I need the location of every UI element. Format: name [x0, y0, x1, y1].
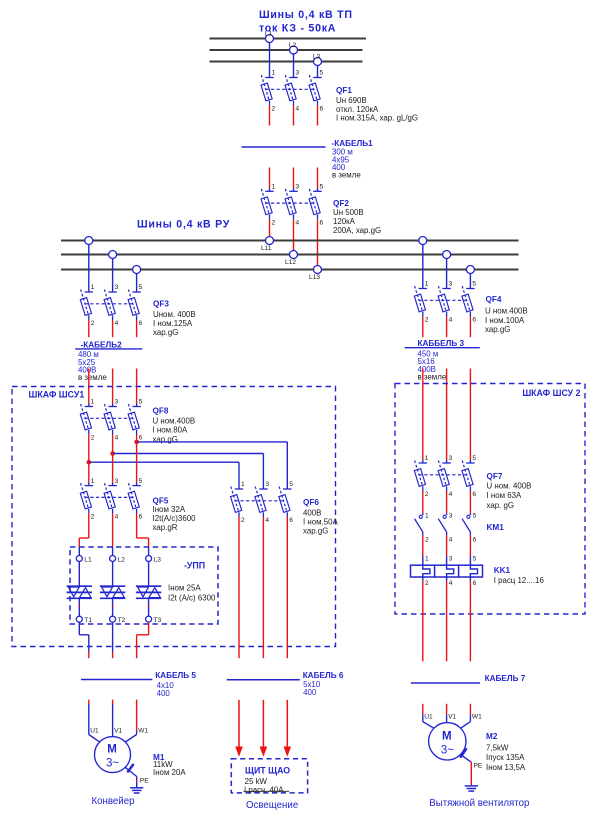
busbar TP 0,4kV (3 lines) — [210, 39, 367, 62]
svg-text:L13: L13 — [309, 274, 320, 281]
svg-text:4: 4 — [296, 106, 300, 113]
QF4 value labels — [485, 295, 528, 334]
contactor KM1 pole 2 (pins 3,4) — [438, 512, 452, 543]
wire QF6 pin2 down to КАБЕЛЬ6 — [238, 517, 240, 658]
wire КАББЕЛЬ3 to QF7 pin3 — [446, 369, 448, 464]
svg-text:V1: V1 — [448, 714, 456, 721]
cabinet box ШКАФ ШСУ1 — [12, 387, 336, 647]
svg-text:4: 4 — [265, 517, 269, 524]
svg-text:T2: T2 — [118, 617, 126, 624]
svg-text:6: 6 — [289, 517, 293, 524]
wire junction C to QF5 pin5 — [136, 442, 138, 486]
svg-text:1: 1 — [425, 281, 429, 288]
QF1 value labels — [336, 86, 418, 122]
QF2 value labels — [333, 199, 381, 235]
busbar title "Шины 0,4 кВ ТП" — [259, 9, 353, 21]
breaker QF7 (switch-fuse, 3 poles, pins 1-6) — [414, 455, 476, 498]
wire bus to QF4 pin3 — [446, 259, 448, 289]
svg-text:400: 400 — [303, 688, 317, 697]
breaker QF3 (switch-fuse, 3 poles, pins 1-6) — [80, 284, 142, 327]
svg-text:ШКАФ ШСУ 2: ШКАФ ШСУ 2 — [522, 388, 580, 398]
cabinet label ШКАФ ШСУ1 — [29, 389, 85, 399]
caption Конвейер — [92, 796, 135, 807]
wire QF2 pin2 to node L11 — [269, 219, 271, 236]
УПП terminal T2 — [110, 616, 126, 624]
svg-text:U ном.400В: U ном.400В — [485, 307, 528, 316]
wire junction B to QF5 pin3 — [112, 454, 114, 486]
svg-text:I ном.100А: I ном.100А — [485, 316, 525, 325]
svg-text:3~: 3~ — [106, 758, 119, 770]
cabinet box ШКАФ ШСУ 2 — [395, 384, 585, 615]
wire L1 to QF1 pin1 — [269, 43, 271, 78]
svg-text:хар.gG: хар.gG — [153, 328, 178, 337]
svg-text:3: 3 — [115, 478, 119, 485]
svg-text:QF7: QF7 — [487, 472, 503, 481]
svg-text:L2: L2 — [118, 556, 126, 563]
svg-text:Iном 20А: Iном 20А — [153, 768, 186, 777]
svg-text:хар. gG: хар. gG — [487, 501, 515, 510]
svg-text:5: 5 — [139, 478, 143, 485]
svg-text:2: 2 — [425, 536, 429, 543]
panel label ЩИТ ЩАО — [245, 766, 290, 776]
svg-text:L12: L12 — [285, 259, 296, 266]
wire QF6 pin4 down to КАБЕЛЬ6 — [262, 517, 264, 658]
wire KM1 pin4 to KK1 pin3 — [447, 535, 453, 562]
node QF4 phase C on bus — [466, 266, 474, 274]
svg-text:120кА: 120кА — [333, 217, 356, 226]
wire КАББЕЛЬ3 to QF7 pin1 — [422, 369, 424, 464]
svg-text:6: 6 — [472, 491, 476, 498]
svg-text:L1: L1 — [265, 30, 273, 37]
svg-text:6: 6 — [473, 536, 477, 543]
svg-text:1: 1 — [91, 284, 95, 291]
M1 PE lead with blade — [125, 764, 149, 787]
svg-text:5: 5 — [473, 556, 477, 563]
svg-text:5: 5 — [320, 184, 324, 191]
node QF4 phase B on bus — [443, 251, 451, 259]
svg-text:Uн 500В: Uн 500В — [333, 208, 364, 217]
wire T2 to КАБЕЛЬ5 — [112, 622, 114, 658]
svg-text:хар.gG: хар.gG — [303, 527, 328, 536]
svg-text:1: 1 — [425, 512, 429, 519]
motor M1 (М 3~) — [95, 737, 131, 773]
wire QF7 pin6 to KM1 pin5 — [469, 491, 471, 515]
busbar title "Шины 0,4 кВ РУ" — [137, 218, 230, 230]
M2 value labels — [486, 732, 526, 772]
svg-text:в земле: в земле — [418, 373, 447, 382]
KK1 heater element phase 2 (pins 3,4) — [447, 556, 454, 587]
breaker QF1 (switch-fuse, 3 poles, pins 1-6) — [261, 70, 323, 113]
motor M2 (М 3~) — [429, 723, 466, 760]
wire КАББЕЛЬ3 to QF7 pin5 — [469, 369, 471, 464]
svg-text:2: 2 — [272, 219, 276, 226]
QF5 value labels — [153, 496, 197, 531]
svg-text:I2t (А/с) 6300: I2t (А/с) 6300 — [168, 593, 216, 602]
breaker QF2 (switch-fuse, 3 poles, pins 1-6) — [261, 184, 323, 227]
svg-text:U ном.400В: U ном.400В — [153, 416, 196, 425]
svg-text:хар.gR: хар.gR — [153, 523, 178, 532]
wire КАБЕЛЬ7 to M2 U1 — [423, 704, 434, 729]
svg-text:I ном 63А: I ном 63А — [487, 491, 523, 500]
wire QF8 pin4 to junction B — [112, 435, 114, 454]
svg-text:3: 3 — [115, 284, 119, 291]
svg-text:QF8: QF8 — [153, 407, 169, 416]
svg-text:Uн 690В: Uн 690В — [336, 96, 367, 105]
M1 value labels — [153, 753, 186, 777]
wire KM1 pin6 to KK1 pin5 — [470, 535, 476, 562]
wire bus to QF3 pin1 — [88, 245, 90, 293]
svg-text:I ном.80А: I ном.80А — [153, 425, 189, 434]
svg-text:6: 6 — [139, 514, 143, 521]
wire T1 to КАБЕЛЬ5 (jog) — [79, 622, 89, 658]
svg-text:KK1: KK1 — [494, 566, 511, 575]
УПП terminal L2 — [110, 556, 126, 564]
svg-text:М: М — [442, 730, 452, 742]
svg-text:КАББЕЛЬ 3: КАББЕЛЬ 3 — [418, 339, 465, 348]
wire QF1 pin6 down (phase C) — [317, 106, 319, 126]
wire QF5 pin4 to УПП L2 — [112, 514, 114, 556]
QF3 value labels — [153, 300, 196, 338]
wire КАБЕЛЬ2 to QF8 pin1 — [88, 369, 90, 407]
svg-text:400В: 400В — [303, 508, 321, 517]
wire bus to QF3 pin3 — [112, 259, 114, 293]
wire QF7 pin2 to KM1 pin1 — [422, 491, 424, 515]
svg-text:М: М — [107, 744, 117, 756]
svg-text:-КАБЕЛЬ2: -КАБЕЛЬ2 — [81, 340, 123, 349]
wire QF5 pin2 to УПП L1 (jog) — [79, 514, 89, 556]
svg-text:I расц 12....16: I расц 12....16 — [494, 576, 545, 585]
svg-text:QF5: QF5 — [153, 496, 169, 505]
thermal relay KK1 box — [411, 565, 483, 577]
svg-text:3: 3 — [449, 281, 453, 288]
svg-text:2: 2 — [91, 320, 95, 327]
node L11 — [261, 237, 274, 253]
svg-text:QF1: QF1 — [336, 86, 352, 95]
cable КАББЕЛЬ 3 labels and marker — [405, 339, 480, 381]
svg-text:I ном.315А, хар. gL/gG: I ном.315А, хар. gL/gG — [336, 113, 418, 122]
svg-text:U1: U1 — [424, 714, 433, 721]
УПП terminal L1 — [76, 556, 92, 564]
svg-text:4: 4 — [449, 580, 453, 587]
svg-text:3: 3 — [449, 556, 453, 563]
svg-text:Шины 0,4 кВ РУ: Шины 0,4 кВ РУ — [137, 218, 230, 230]
svg-text:1: 1 — [272, 70, 276, 77]
svg-text:6: 6 — [473, 580, 477, 587]
svg-text:200А, хар.gG: 200А, хар.gG — [333, 226, 381, 235]
breaker QF8 (switch-fuse, 3 poles, pins 1-6) — [80, 399, 142, 442]
wire KK1 pin4 down to КАБЕЛЬ7 — [446, 581, 448, 662]
KM1 label — [487, 523, 505, 532]
svg-text:L3: L3 — [313, 53, 321, 60]
wire L2 to QF1 pin3 — [293, 54, 295, 78]
thyristor pair phase 2 — [100, 586, 125, 598]
svg-text:Конвейер: Конвейер — [92, 796, 135, 807]
branch wire junction C to QF6 pin5 — [137, 442, 288, 489]
svg-text:5: 5 — [473, 512, 477, 519]
wire bus to QF3 pin5 — [136, 274, 138, 293]
wire КАБЕЛЬ1 to QF2 pin5 — [317, 168, 319, 192]
wire QF8 pin6 to junction C — [136, 435, 138, 442]
svg-text:2: 2 — [91, 514, 95, 521]
svg-text:КАБЕЛЬ 7: КАБЕЛЬ 7 — [485, 674, 526, 683]
svg-text:3: 3 — [449, 512, 453, 519]
svg-text:5: 5 — [289, 481, 293, 488]
node QF4 phase A on bus — [419, 237, 427, 245]
KK1 labels — [494, 566, 545, 585]
junction A (dot) — [87, 460, 92, 465]
wire bus to QF4 pin5 — [469, 274, 471, 289]
cable КАБЕЛЬ 5 marker and labels — [81, 671, 196, 698]
wire QF1 pin4 down (phase B) — [293, 106, 295, 126]
branch wire junction A to QF6 pin1 — [89, 462, 239, 489]
svg-text:QF4: QF4 — [486, 295, 502, 304]
wire bus to QF4 pin1 — [422, 245, 424, 289]
panel value labels — [244, 777, 290, 794]
cable КАБЕЛЬ 6 marker and labels — [227, 671, 344, 697]
wire L2 to thyristor 2 — [112, 562, 114, 587]
wire КАБЕЛЬ1 to QF2 pin3 — [293, 168, 295, 192]
wire thyristor 3 to T3 — [148, 598, 150, 616]
svg-text:1: 1 — [425, 556, 429, 563]
busbar subtitle "ток КЗ - 50кА" — [259, 23, 336, 35]
svg-text:6: 6 — [139, 435, 143, 442]
wire КАБЕЛЬ1 to QF2 pin1 — [269, 168, 271, 192]
svg-text:4: 4 — [115, 320, 119, 327]
breaker QF4 (switch-fuse, 3 poles, pins 1-6) — [414, 281, 476, 324]
svg-text:ЩИТ ЩАО: ЩИТ ЩАО — [245, 766, 290, 776]
wire КАБЕЛЬ7 to M2 V1 — [446, 704, 448, 723]
svg-text:5: 5 — [320, 70, 324, 77]
svg-text:2: 2 — [272, 106, 276, 113]
svg-text:W1: W1 — [138, 728, 148, 735]
svg-text:в земле: в земле — [332, 171, 361, 180]
svg-text:PE: PE — [140, 777, 149, 784]
wire KK1 pin6 down to КАБЕЛЬ7 — [469, 581, 471, 662]
svg-text:хар.gG: хар.gG — [485, 325, 510, 334]
svg-text:1: 1 — [272, 184, 276, 191]
wire QF4 pin6 down — [469, 317, 471, 338]
wire QF7 pin4 to KM1 pin3 — [446, 491, 448, 515]
svg-text:QF6: QF6 — [303, 498, 319, 507]
M1 ground — [130, 788, 143, 793]
svg-text:КАБЕЛЬ 5: КАБЕЛЬ 5 — [155, 671, 196, 680]
wire QF8 pin2 to junction A — [88, 435, 90, 463]
wire КАБЕЛЬ7 to M2 W1 — [461, 704, 471, 729]
wire QF5 pin6 to УПП L3 (jog) — [137, 514, 149, 556]
node L1 — [265, 30, 274, 42]
cable -КАБЕЛЬ1 labels — [332, 139, 374, 180]
svg-text:3: 3 — [296, 184, 300, 191]
wire thyristor 2 to T2 — [112, 598, 114, 616]
wire QF4 pin4 down — [446, 317, 448, 338]
thyristor pair phase 3 — [136, 586, 161, 598]
contactor KM1 pole 3 (pins 5,6) — [462, 512, 477, 543]
svg-text:1: 1 — [425, 455, 429, 462]
wire КАБЕЛЬ5 to M1 V1 — [112, 700, 114, 737]
svg-text:400: 400 — [157, 689, 171, 698]
svg-text:3: 3 — [296, 70, 300, 77]
branch wire junction B to QF6 pin3 — [113, 454, 264, 490]
wire КАБЕЛЬ2 to QF8 pin3 — [112, 369, 114, 407]
svg-text:U1: U1 — [90, 728, 99, 735]
node L3 — [313, 53, 322, 65]
svg-text:7,5kW: 7,5kW — [486, 743, 509, 752]
wire L3 to QF1 pin5 — [317, 66, 319, 78]
svg-text:2: 2 — [425, 580, 429, 587]
svg-text:4: 4 — [449, 317, 453, 324]
M2 terminal labels U1 V1 W1 — [424, 714, 482, 721]
M2 ground — [465, 786, 478, 791]
svg-text:3: 3 — [115, 399, 119, 406]
wire QF3 pin4 down — [112, 320, 114, 337]
QF6 value labels — [303, 498, 339, 536]
svg-text:4: 4 — [115, 435, 119, 442]
svg-text:1: 1 — [91, 399, 95, 406]
caption Освещение — [246, 800, 298, 811]
svg-text:КАБЕЛЬ 6: КАБЕЛЬ 6 — [303, 671, 344, 680]
svg-text:T1: T1 — [84, 617, 92, 624]
QF8 value labels — [153, 407, 196, 444]
wire QF3 pin2 down — [88, 320, 90, 337]
svg-text:2: 2 — [425, 317, 429, 324]
svg-text:QF3: QF3 — [153, 300, 169, 309]
wire L3 to thyristor 3 — [148, 562, 150, 587]
caption Вытяжной вентилятор — [429, 798, 529, 809]
svg-text:6: 6 — [320, 106, 324, 113]
wire QF2 pin4 to node L12 — [293, 219, 295, 250]
svg-text:Iном 13,5А: Iном 13,5А — [486, 763, 526, 772]
svg-text:3~: 3~ — [441, 744, 454, 756]
svg-text:6: 6 — [472, 317, 476, 324]
wire QF1 pin2 down (phase A) — [269, 106, 271, 126]
svg-text:4: 4 — [449, 536, 453, 543]
cable КАБЕЛЬ 7 marker and label — [411, 674, 526, 683]
arrow to ЩИТ ЩАО phase A — [235, 700, 243, 757]
svg-text:2: 2 — [91, 435, 95, 442]
УПП terminal T3 — [146, 616, 162, 624]
svg-text:V1: V1 — [114, 728, 122, 735]
svg-text:4: 4 — [296, 219, 300, 226]
УПП value labels — [168, 584, 216, 603]
soft-starter box -УПП — [70, 547, 218, 624]
panel box ЩИТ ЩАО — [231, 759, 307, 793]
svg-text:4: 4 — [449, 491, 453, 498]
contactor KM1 pole 1 (pins 1,2) — [415, 512, 430, 543]
wire L1 to thyristor 1 — [78, 562, 80, 587]
thyristor pair phase 1 — [67, 586, 92, 598]
svg-text:I ном.50А: I ном.50А — [303, 518, 339, 527]
svg-text:I2t(А/с)3600: I2t(А/с)3600 — [153, 514, 197, 523]
KK1 heater element phase 1 (pins 1,2) — [423, 556, 430, 587]
svg-text:5: 5 — [472, 281, 476, 288]
svg-text:3: 3 — [449, 455, 453, 462]
svg-text:в земле: в земле — [78, 373, 107, 382]
arrow to ЩИТ ЩАО phase B — [260, 700, 268, 757]
soft-starter label -УПП — [184, 561, 205, 571]
svg-text:Iном 25А: Iном 25А — [168, 584, 201, 593]
svg-text:L1: L1 — [84, 556, 92, 563]
node L13 — [309, 266, 322, 282]
node QF3 phase C on bus — [133, 266, 141, 274]
svg-text:L2: L2 — [289, 42, 297, 49]
wire КАБЕЛЬ5 to M1 W1 — [125, 700, 136, 743]
wire thyristor 1 to T1 — [78, 598, 80, 616]
svg-text:Uном. 400В: Uном. 400В — [153, 310, 196, 319]
wire QF2 pin6 to node L13 — [317, 219, 319, 265]
junction C (dot) — [134, 440, 139, 445]
node L2 — [289, 42, 298, 54]
svg-text:Освещение: Освещение — [246, 800, 298, 811]
svg-text:5: 5 — [139, 399, 143, 406]
node L12 — [285, 251, 298, 267]
svg-text:Шины 0,4 кВ ТП: Шины 0,4 кВ ТП — [259, 9, 353, 21]
svg-text:5: 5 — [472, 455, 476, 462]
svg-text:1: 1 — [241, 481, 245, 488]
svg-text:L3: L3 — [154, 556, 162, 563]
wire КАБЕЛЬ2 to QF8 pin5 — [136, 369, 138, 407]
KK1 heater element phase 3 (pins 5,6) — [470, 556, 477, 587]
svg-text:M2: M2 — [486, 732, 498, 741]
QF7 value labels — [487, 472, 532, 510]
svg-text:W1: W1 — [472, 714, 482, 721]
arrow to ЩИТ ЩАО phase C — [284, 700, 292, 757]
svg-text:6: 6 — [320, 219, 324, 226]
wire QF3 pin6 down — [136, 320, 138, 337]
M2 PE lead with blade — [460, 748, 483, 785]
svg-text:T3: T3 — [154, 617, 162, 624]
cable -КАБЕЛЬ2 labels and marker — [75, 340, 142, 382]
УПП terminal L3 — [146, 556, 162, 564]
cable -КАБЕЛЬ1 marker line — [242, 146, 326, 148]
svg-text:U ном. 400В: U ном. 400В — [487, 481, 532, 490]
wire QF6 pin6 down to КАБЕЛЬ6 — [286, 517, 288, 658]
wire КАБЕЛЬ5 to M1 U1 — [89, 700, 100, 743]
svg-text:PE: PE — [474, 763, 483, 770]
svg-text:1: 1 — [91, 478, 95, 485]
svg-text:KM1: KM1 — [487, 523, 505, 532]
svg-text:Вытяжной вентилятор: Вытяжной вентилятор — [429, 798, 529, 809]
УПП terminal T1 — [76, 616, 92, 624]
svg-text:ШКАФ ШСУ1: ШКАФ ШСУ1 — [29, 389, 85, 399]
svg-text:3: 3 — [265, 481, 269, 488]
breaker QF5 (switch-fuse, 3 poles, pins 1-6) — [80, 478, 142, 521]
node QF3 phase B on bus — [109, 251, 117, 259]
cabinet label ШКАФ ШСУ 2 — [522, 388, 580, 398]
svg-text:L11: L11 — [261, 245, 272, 252]
wire junction A to QF5 pin1 — [88, 462, 90, 485]
node QF3 phase A on bus — [85, 237, 93, 245]
wire T3 to КАБЕЛЬ5 (jog) — [137, 622, 149, 658]
junction B (dot) — [110, 451, 115, 456]
busbar RU 0,4kV (3 lines) — [61, 241, 519, 270]
M1 terminal labels U1 V1 W1 — [90, 728, 148, 735]
svg-text:2: 2 — [241, 517, 245, 524]
svg-text:2: 2 — [425, 491, 429, 498]
svg-text:I расч. 40А: I расч. 40А — [244, 785, 284, 794]
svg-text:I ном.125А: I ном.125А — [153, 319, 193, 328]
svg-text:6: 6 — [139, 320, 143, 327]
svg-text:4: 4 — [115, 514, 119, 521]
svg-text:-УПП: -УПП — [184, 561, 205, 571]
svg-text:Iпуск 135А: Iпуск 135А — [486, 753, 525, 762]
svg-text:5: 5 — [139, 284, 143, 291]
wire KM1 pin2 to KK1 pin1 — [423, 535, 429, 562]
wire KK1 pin2 down to КАБЕЛЬ7 — [422, 581, 424, 662]
svg-text:Iном 32А: Iном 32А — [153, 505, 186, 514]
svg-text:хар.gG: хар.gG — [153, 435, 178, 444]
breaker QF6 (switch-fuse, 3 poles, pins 1-6) — [231, 481, 294, 524]
wire QF4 pin2 down — [422, 317, 424, 338]
